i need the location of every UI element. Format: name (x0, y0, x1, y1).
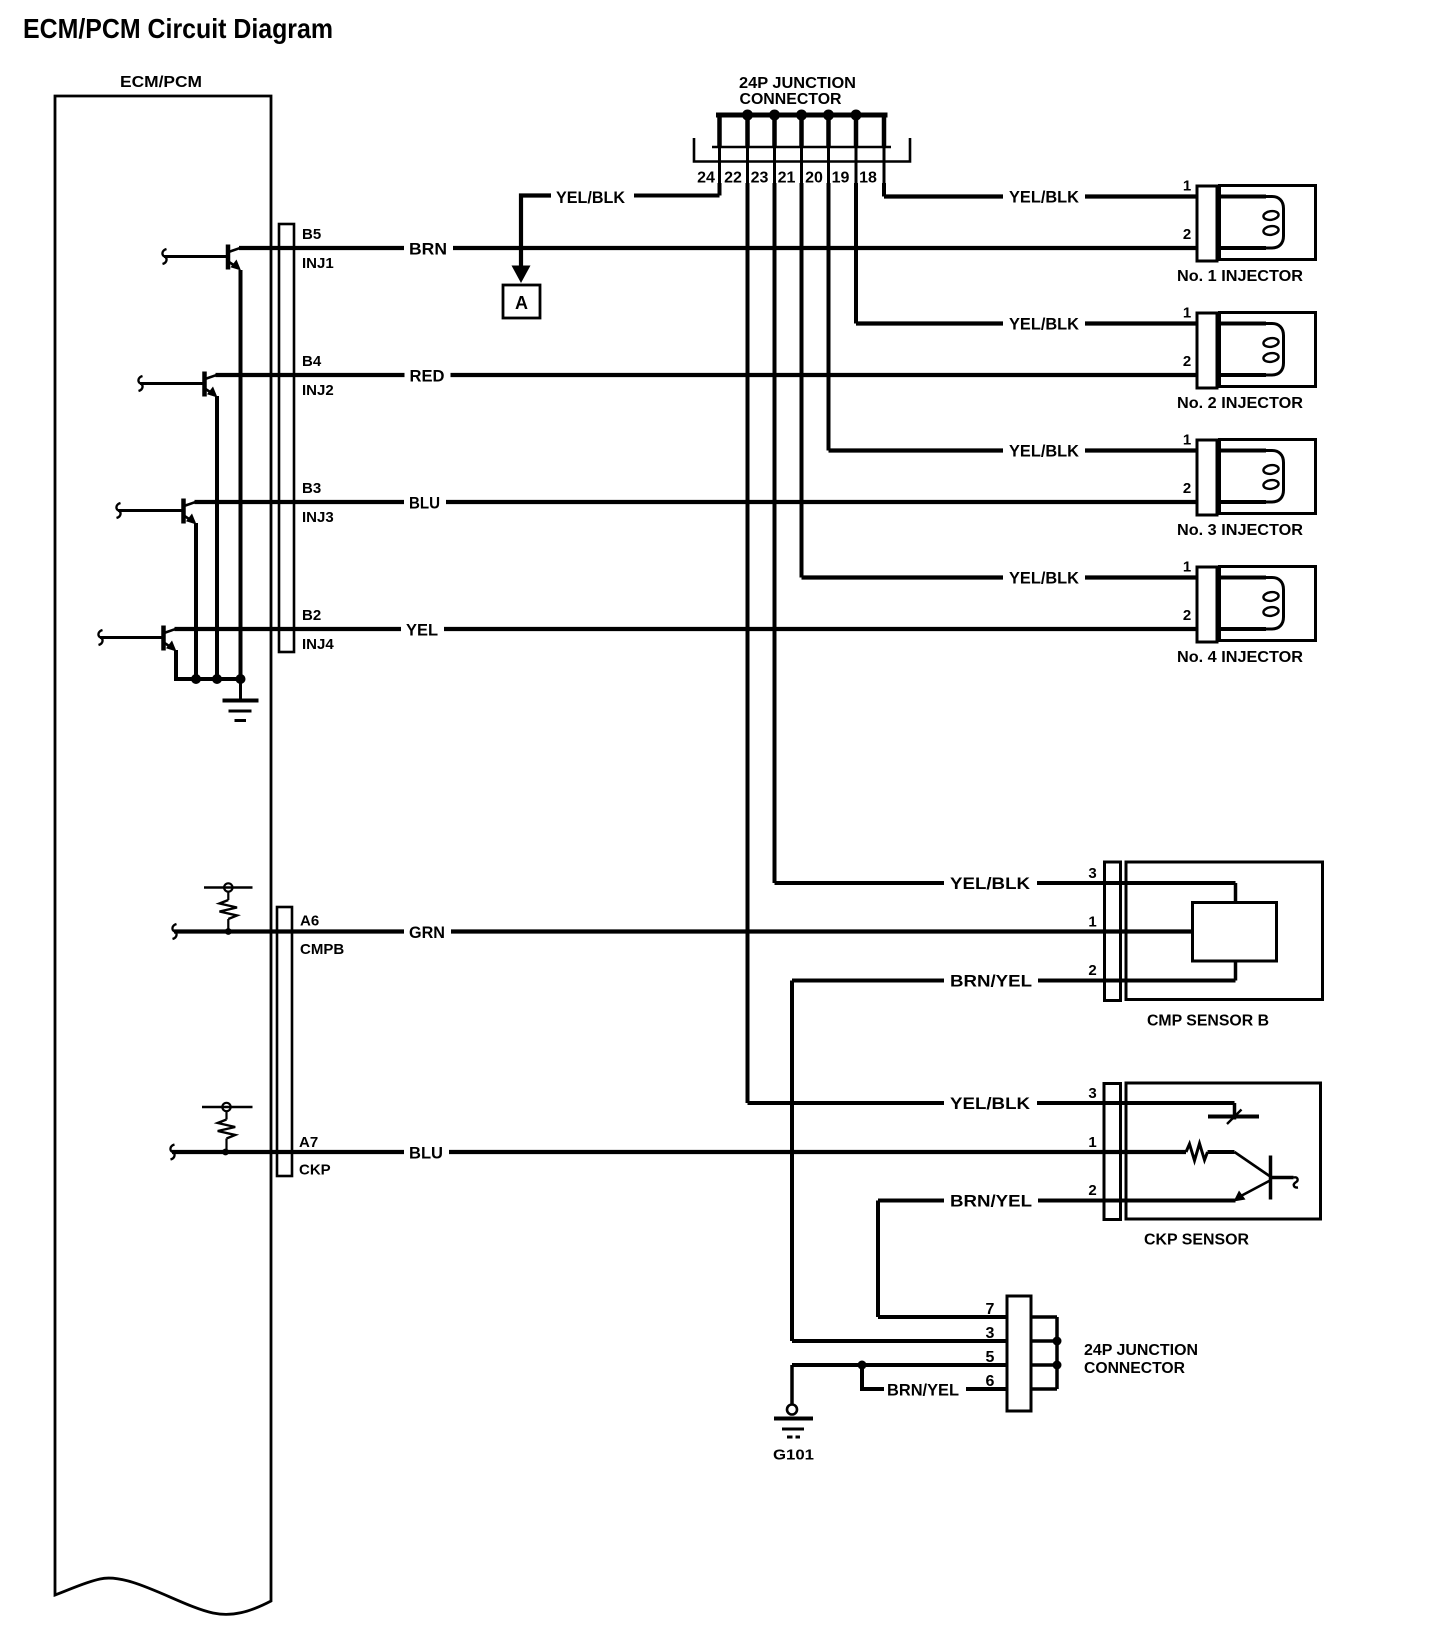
pin B4 INJ2 labels (302, 353, 334, 399)
svg-text:23: 23 (751, 170, 769, 187)
junction dot (bottom connector bus pin 5) (1053, 1361, 1062, 1370)
wire RED (B4 to injector pin 2) (216, 367, 1198, 386)
wire BRN/YEL (CKP sensor pin 2 to lower junction pin 7) (878, 1192, 1236, 1318)
wire: junction pin 23 vertical (773, 183, 777, 883)
wire: junction pin 21 vertical (800, 183, 804, 578)
svg-text:BRN: BRN (409, 240, 447, 259)
svg-text:YEL/BLK: YEL/BLK (950, 1094, 1031, 1113)
wire: pin 7 lead (878, 1315, 1007, 1319)
svg-text:No. 3 INJECTOR: No. 3 INJECTOR (1177, 522, 1303, 539)
transistor Q2 (injector driver INJ2) (138, 372, 217, 398)
wire: junction pin 20 vertical (827, 183, 831, 451)
connector strip (ECM pins A6 A7) (277, 907, 292, 1176)
svg-text:RED: RED (410, 367, 445, 386)
svg-text:1: 1 (1088, 1134, 1096, 1151)
wire GRN (A6 CMPB to CMP sensor pin 1) (172, 923, 1192, 942)
svg-text:INJ2: INJ2 (302, 382, 334, 399)
connector strip (ECM pins B5 B4 B3 B2) (279, 224, 294, 652)
svg-text:CONNECTOR: CONNECTOR (740, 91, 842, 108)
svg-text:2: 2 (1088, 1182, 1096, 1199)
svg-text:3: 3 (1088, 865, 1096, 882)
svg-text:YEL/BLK: YEL/BLK (1009, 315, 1080, 334)
wire YEL/BLK (junction pin 23 to CMP sensor pin 3) (775, 874, 1236, 893)
injector No. 3 (1183, 432, 1316, 516)
svg-text:21: 21 (778, 170, 796, 187)
svg-text:2: 2 (1183, 353, 1191, 370)
svg-text:1: 1 (1183, 178, 1191, 195)
wire: Q3 emitter down to common bus (194, 523, 198, 679)
svg-text:YEL/BLK: YEL/BLK (1009, 188, 1080, 207)
wire BLU (B3 to injector pin 2) (195, 494, 1198, 513)
svg-text:YEL/BLK: YEL/BLK (1009, 442, 1080, 461)
svg-text:19: 19 (832, 170, 850, 187)
pin A6 CMPB labels (300, 913, 344, 959)
junction dot on connector bus (823, 110, 834, 121)
injector No. 1 (1183, 178, 1316, 262)
pin A7 CKP labels (299, 1134, 331, 1179)
wire BLU (A7 CKP to CKP sensor pin 1) (170, 1144, 1186, 1163)
svg-text:3: 3 (1088, 1085, 1096, 1102)
svg-text:INJ3: INJ3 (302, 509, 334, 526)
24P junction connector (top) body (694, 113, 910, 183)
pin B2 INJ4 labels (302, 607, 334, 653)
svg-text:1: 1 (1183, 432, 1191, 449)
wire BRN (B5 to injector pin 2) (239, 240, 1197, 259)
ground G101 (773, 1365, 814, 1464)
svg-text:B4: B4 (302, 353, 322, 370)
CMP sensor B body (1088, 862, 1322, 1001)
svg-text:ECM/PCM: ECM/PCM (120, 74, 202, 91)
svg-text:No. 2 INJECTOR: No. 2 INJECTOR (1177, 395, 1303, 412)
svg-text:2: 2 (1183, 226, 1191, 243)
junction dot on connector bus (742, 110, 753, 121)
svg-text:1: 1 (1183, 559, 1191, 576)
svg-text:ECM/PCM Circuit Diagram: ECM/PCM Circuit Diagram (23, 13, 333, 44)
pin B3 INJ3 labels (302, 480, 334, 526)
svg-text:B3: B3 (302, 480, 321, 497)
wire YEL/BLK (pin 24 to connector A) (521, 183, 720, 268)
wire: pin 3 lead (792, 1339, 1007, 1343)
wire: pin 5 lead (from G101) (792, 1363, 1007, 1367)
wire YEL/BLK (junction pin 22 to CKP sensor pin 3) (748, 1094, 1235, 1113)
svg-text:B5: B5 (302, 226, 321, 243)
svg-text:INJ4: INJ4 (302, 636, 334, 653)
svg-text:No. 4 INJECTOR: No. 4 INJECTOR (1177, 649, 1303, 666)
pin B5 INJ1 labels (302, 226, 334, 272)
connector A box (503, 285, 540, 318)
svg-text:CKP SENSOR: CKP SENSOR (1144, 1232, 1249, 1249)
wire: junction pin 22 vertical (746, 183, 750, 1103)
junction dot (R1 / GRN wire) (225, 928, 232, 935)
resistor R1 (A6 pull-up with circle terminal) (204, 883, 253, 929)
svg-text:YEL/BLK: YEL/BLK (950, 874, 1031, 893)
svg-text:CMP SENSOR B: CMP SENSOR B (1147, 1013, 1269, 1030)
junction dot (Q3 emitter / bus) (191, 674, 201, 684)
resistor R2 (A7 pull-up with circle terminal) (202, 1103, 253, 1150)
24P junction connector (top) label (739, 75, 856, 108)
wire: junction pin 19 vertical (854, 183, 858, 324)
wire YEL/BLK (junction to No. 2 injector pin 1) (856, 315, 1197, 334)
wire: Q2 emitter down to common bus (215, 396, 219, 679)
svg-text:2: 2 (1183, 607, 1191, 624)
junction dot (Q2 emitter / bus) (212, 674, 222, 684)
transistor Q4 (injector driver INJ4) (98, 626, 176, 652)
wire BRN/YEL (branch to pin 6) (862, 1365, 1007, 1400)
svg-text:1: 1 (1088, 914, 1096, 931)
wire YEL/BLK (junction to No. 1 injector pin 1) (884, 188, 1197, 207)
svg-text:B2: B2 (302, 607, 321, 624)
ground (ECM internal) (223, 679, 259, 721)
24P junction connector (bottom) label (1084, 1342, 1198, 1377)
svg-text:20: 20 (805, 170, 823, 187)
arrowhead into connector A (512, 266, 531, 284)
wire YEL (B2 to injector pin 2) (175, 621, 1198, 640)
svg-text:18: 18 (859, 170, 877, 187)
junction dot (R2 / BLU wire) (222, 1149, 229, 1156)
wire YEL/BLK (junction to No. 4 injector pin 1) (802, 569, 1198, 588)
svg-text:INJ1: INJ1 (302, 255, 334, 272)
transistor Q3 (injector driver INJ3) (116, 499, 196, 525)
svg-text:A: A (515, 293, 528, 313)
svg-text:BRN/YEL: BRN/YEL (950, 1192, 1032, 1211)
svg-text:A6: A6 (300, 913, 319, 930)
ECM/PCM box (torn bottom) (55, 96, 271, 1614)
svg-text:BLU: BLU (409, 494, 440, 513)
transistor Q1 (injector driver INJ1) (162, 245, 241, 271)
svg-text:24P JUNCTION: 24P JUNCTION (739, 75, 856, 92)
junction dot (bottom connector bus pin 3) (1053, 1337, 1062, 1346)
svg-text:BRN/YEL: BRN/YEL (887, 1381, 959, 1400)
svg-text:YEL: YEL (406, 621, 438, 640)
svg-text:22: 22 (724, 170, 742, 187)
CKP sensor body (1088, 1083, 1320, 1220)
svg-text:1: 1 (1183, 305, 1191, 322)
junction dot on connector bus (851, 110, 862, 121)
svg-text:24P JUNCTION: 24P JUNCTION (1084, 1342, 1198, 1359)
svg-text:A7: A7 (299, 1134, 318, 1151)
svg-text:BRN/YEL: BRN/YEL (950, 972, 1032, 991)
injector No. 2 (1183, 305, 1316, 389)
svg-text:2: 2 (1088, 962, 1096, 979)
svg-text:2: 2 (1183, 480, 1191, 497)
junction dot (Q1 emitter / bus / ground stem) (236, 674, 246, 684)
24P junction connector (bottom) body (1007, 1296, 1057, 1411)
svg-text:BLU: BLU (409, 1144, 443, 1163)
svg-text:CONNECTOR: CONNECTOR (1084, 1360, 1185, 1377)
wire: junction pin 18 vertical (882, 183, 886, 197)
wire YEL/BLK (junction to No. 3 injector pin 1) (829, 442, 1198, 461)
svg-text:No. 1 INJECTOR: No. 1 INJECTOR (1177, 268, 1303, 285)
junction dot (pin 5 / pin 6 branch) (858, 1361, 867, 1370)
wire BRN/YEL (CMP sensor pin 2 to lower junction pin 3) (792, 972, 1236, 1342)
svg-text:CMPB: CMPB (300, 941, 344, 958)
junction dot on connector bus (796, 110, 807, 121)
svg-text:YEL/BLK: YEL/BLK (556, 188, 626, 207)
wire: Q1 emitter down to common bus (239, 270, 243, 679)
svg-text:24: 24 (697, 170, 715, 187)
svg-text:CKP: CKP (299, 1162, 331, 1179)
wire: Q4 emitter elbow to common bus (176, 650, 242, 679)
svg-text:YEL/BLK: YEL/BLK (1009, 569, 1080, 588)
svg-text:GRN: GRN (409, 923, 445, 942)
injector No. 4 (1183, 559, 1316, 643)
svg-text:G101: G101 (773, 1447, 814, 1464)
junction dot on connector bus (769, 110, 780, 121)
